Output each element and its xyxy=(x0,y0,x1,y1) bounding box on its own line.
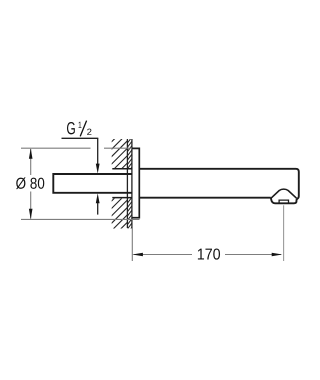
G1/2 arrow down to pipe top xyxy=(96,164,100,174)
dim Ø80 top extension line xyxy=(21,147,132,149)
dim 170 arrow left xyxy=(132,253,143,257)
hole bottom line xyxy=(112,197,132,199)
dim 170 right extension xyxy=(283,205,285,261)
dim 170 arrow right xyxy=(272,253,283,257)
G1/2 lower arrow tail xyxy=(97,203,99,215)
G1/2 slash xyxy=(80,121,86,137)
dim Ø80 bottom extension line xyxy=(21,218,140,220)
aerator xyxy=(279,200,288,203)
wall back line xyxy=(126,139,128,228)
spout mouthpiece dome xyxy=(271,189,297,198)
dim Ø80 arrow down xyxy=(29,209,33,220)
pipe G1/2 nipple xyxy=(53,174,132,193)
spout tube outline xyxy=(139,169,298,204)
G1/2 arrow up to pipe bottom xyxy=(96,193,100,203)
dim 170 left extension (wall face extended) xyxy=(131,228,133,261)
G1/2 leader vertical xyxy=(97,138,99,166)
G1/2 leader underline xyxy=(62,137,99,139)
dim 170 label xyxy=(198,248,220,259)
wall face line xyxy=(131,139,133,228)
hole top line xyxy=(112,168,132,170)
wall hatch coarse xyxy=(111,113,134,247)
flange (escutcheon) xyxy=(132,148,139,217)
G1/2 label text xyxy=(67,122,75,134)
dim Ø80 label xyxy=(16,177,44,189)
dim Ø80 vertical dimension line xyxy=(30,149,32,219)
wall hatch fine (tile layer) xyxy=(127,132,133,234)
dim Ø80 arrow up xyxy=(29,148,33,159)
dim 170 dimension line xyxy=(134,254,282,256)
